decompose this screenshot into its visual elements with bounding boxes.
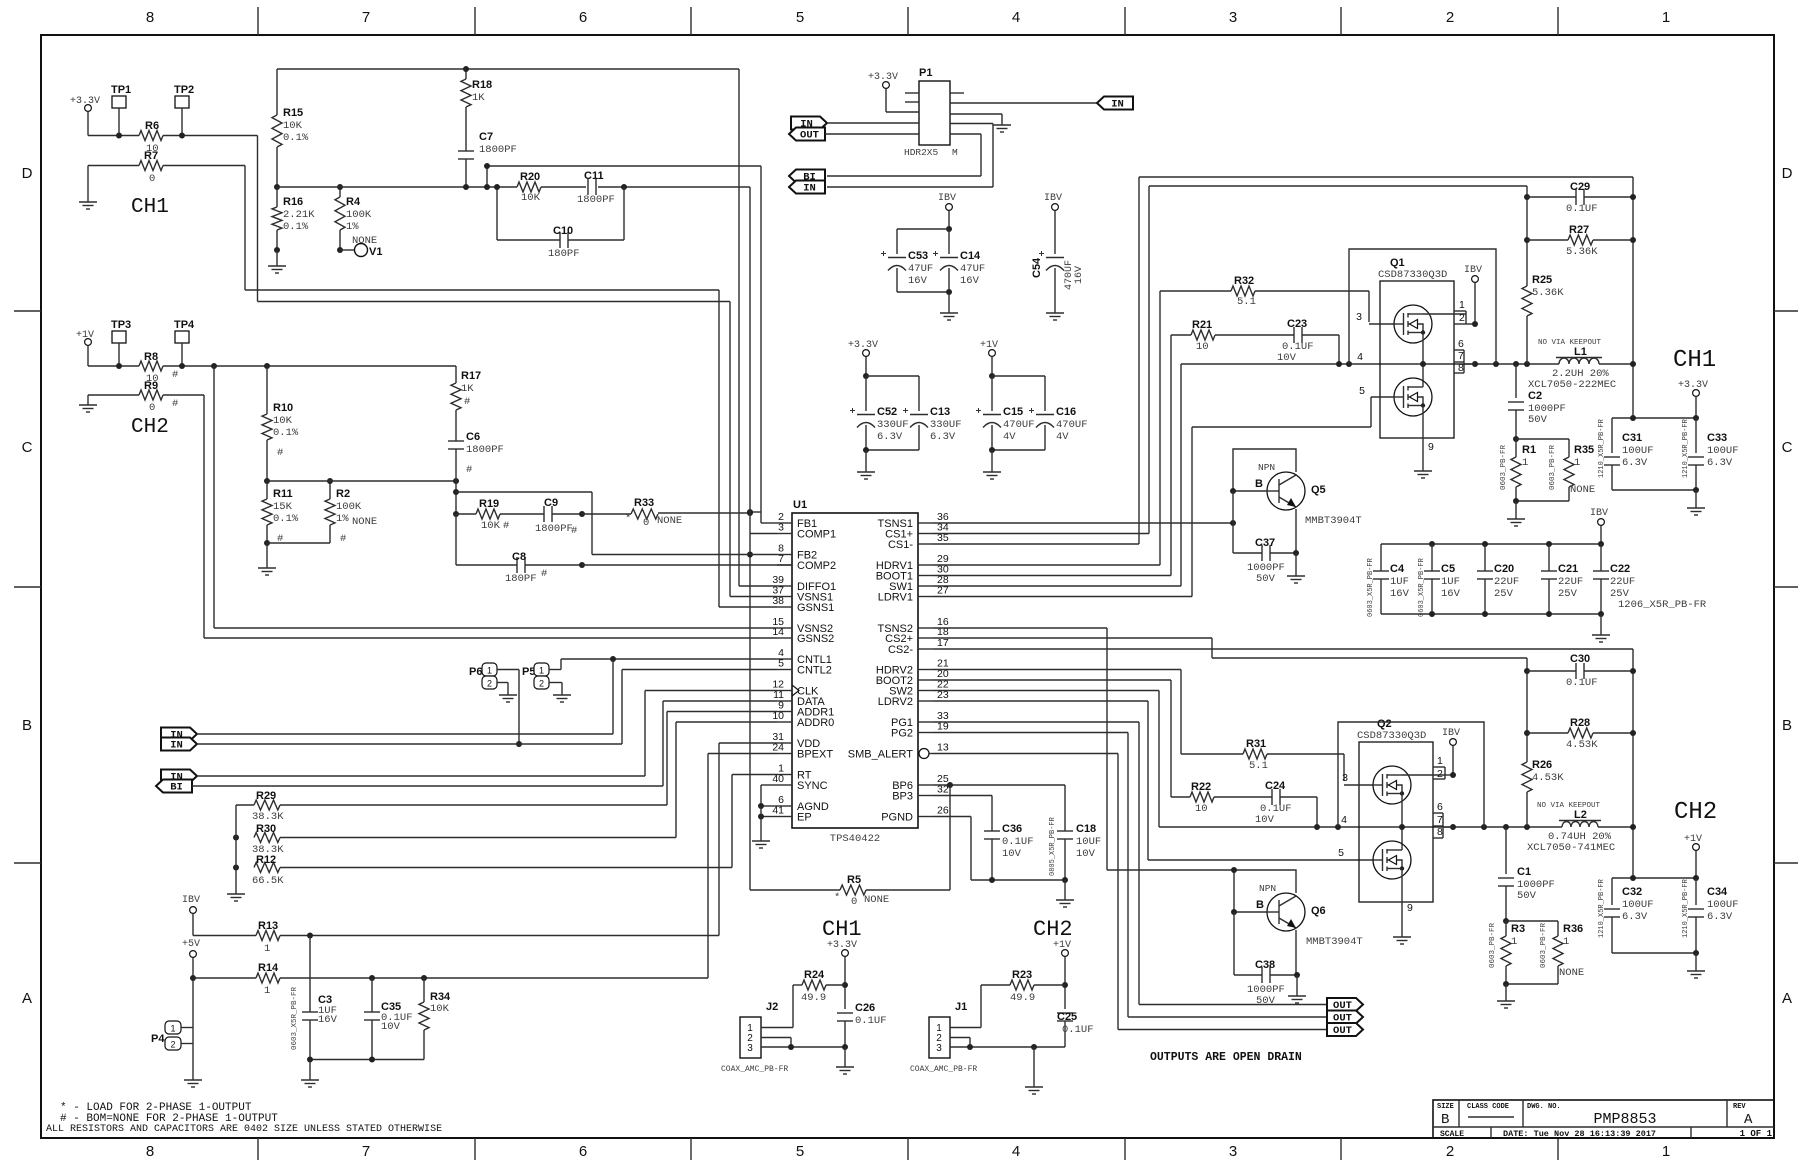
wire C53 bottom rail <box>897 291 949 293</box>
svg-text:1210_X5R_PB-FR: 1210_X5R_PB-FR <box>1598 418 1606 478</box>
svg-text:6.3V: 6.3V <box>877 431 903 443</box>
wire J2 pin1 <box>761 1027 793 1029</box>
svg-text:C32: C32 <box>1622 886 1642 898</box>
svg-text:6.3V: 6.3V <box>1707 457 1733 469</box>
svg-text:6.3V: 6.3V <box>1707 911 1733 923</box>
capacitor C16 <box>1036 414 1054 416</box>
svg-text:R33: R33 <box>634 497 654 509</box>
svg-text:22UF: 22UF <box>1494 576 1519 588</box>
node R26 <box>1524 824 1530 830</box>
svg-text:R8: R8 <box>144 351 158 363</box>
svg-text:C52: C52 <box>877 406 897 418</box>
resistor R3 <box>1505 921 1507 936</box>
voltage probe V1 <box>340 249 355 251</box>
svg-text:4V: 4V <box>1056 431 1069 443</box>
svg-text:B: B <box>22 717 32 734</box>
svg-text:OUT: OUT <box>800 130 819 142</box>
ground (J1) <box>1033 1082 1035 1087</box>
svg-text:C10: C10 <box>553 225 573 237</box>
svg-text:R36: R36 <box>1563 923 1583 935</box>
svg-text:C1: C1 <box>1517 866 1531 878</box>
wire CH2 sense row <box>88 365 139 367</box>
resistor R26 <box>1522 762 1532 792</box>
ground (Q2) <box>1401 932 1403 937</box>
svg-text:R5: R5 <box>847 874 861 886</box>
wire VSNS2 run <box>213 366 215 628</box>
wire CS1- run <box>933 543 1139 545</box>
svg-text:P1: P1 <box>919 67 932 79</box>
node C11 right <box>621 184 627 190</box>
svg-text:5: 5 <box>796 1143 804 1160</box>
wire CH1 sense row <box>88 135 139 137</box>
svg-text:IBV: IBV <box>938 193 956 204</box>
svg-text:17: 17 <box>937 637 949 649</box>
svg-text:*: * <box>834 892 840 904</box>
svg-text:J2: J2 <box>766 1001 778 1013</box>
capacitor C15 <box>991 376 993 411</box>
svg-text:C33: C33 <box>1707 432 1727 444</box>
svg-text:6: 6 <box>1458 338 1464 350</box>
wire CNTL1 row <box>561 658 777 660</box>
svg-text:25V: 25V <box>1494 588 1514 600</box>
node J1 gnd <box>1031 1044 1037 1050</box>
power IBV (Q2) <box>1450 739 1457 746</box>
U1 pin 8 FB2 <box>777 554 792 556</box>
node C38 right <box>1294 972 1300 978</box>
svg-text:8: 8 <box>1437 826 1443 838</box>
svg-text:10V: 10V <box>1255 814 1275 826</box>
svg-text:100UF: 100UF <box>1707 899 1739 911</box>
svg-text:NPN: NPN <box>1258 462 1275 473</box>
wire SMB_ALERT to OUT <box>933 753 1118 755</box>
svg-text:C13: C13 <box>930 406 950 418</box>
svg-text:1: 1 <box>539 666 544 676</box>
wire C3/C35/R34 bottom <box>310 1059 424 1061</box>
node R24/C26 <box>842 982 848 988</box>
svg-text:C37: C37 <box>1255 537 1275 549</box>
svg-text:0603_X5R_PB-FR: 0603_X5R_PB-FR <box>291 986 299 1050</box>
node Q5 base <box>1230 488 1236 494</box>
svg-text:NONE: NONE <box>657 515 682 527</box>
U1 pin 6 AGND <box>777 805 792 807</box>
svg-text:CH2: CH2 <box>1033 917 1073 942</box>
svg-text:SIZE: SIZE <box>1437 1103 1454 1111</box>
U1 pin 36 TSNS1 <box>918 522 933 524</box>
net arrow OUT (PG1) <box>1327 998 1363 1011</box>
wire CH1 left col <box>1526 186 1528 286</box>
svg-text:13: 13 <box>937 742 949 754</box>
net arrow OUT (P1 left) <box>789 128 825 141</box>
svg-text:#: # <box>340 533 346 545</box>
svg-text:4: 4 <box>1012 1143 1020 1160</box>
svg-text:R10: R10 <box>273 402 293 414</box>
svg-text:XCL7050-741MEC: XCL7050-741MEC <box>1527 842 1615 854</box>
svg-text:C8: C8 <box>512 551 526 563</box>
capacitor C4 <box>1380 544 1382 571</box>
svg-text:C54: C54 <box>1031 257 1043 278</box>
svg-text:10K: 10K <box>521 192 541 204</box>
resistor R6 <box>139 131 163 141</box>
svg-text:10V: 10V <box>381 1021 401 1033</box>
net arrow IN (CNTL1) <box>161 728 197 741</box>
wire VDD row <box>719 742 777 744</box>
svg-text:R18: R18 <box>472 79 492 91</box>
capacitor C29 <box>1527 196 1576 198</box>
capacitor C23 <box>1215 334 1294 336</box>
svg-text:COMP1: COMP1 <box>797 529 836 541</box>
svg-text:1: 1 <box>1437 755 1443 767</box>
wire C32/C34 bottom rail <box>1612 952 1696 954</box>
wire CS2- run <box>933 648 1633 650</box>
capacitor C7 <box>465 107 467 151</box>
resistor R23 <box>981 984 1010 986</box>
node tap bottom <box>484 184 490 190</box>
capacitor C22 <box>1600 544 1602 571</box>
power +1V (J1) <box>1062 950 1069 957</box>
capacitor C36 <box>984 830 1000 832</box>
svg-text:M: M <box>952 147 958 158</box>
svg-text:1: 1 <box>1662 9 1670 26</box>
ground (P5) <box>561 690 563 695</box>
capacitor C20 <box>1484 544 1486 571</box>
node C9 right <box>579 511 585 517</box>
U1 pin 33 PG1 <box>918 721 933 723</box>
resistor R29 <box>236 804 254 806</box>
Q1 pins 6/7/8 bracket <box>1454 349 1464 351</box>
svg-text:BPEXT: BPEXT <box>797 749 833 761</box>
wire TSNS1 to Q5 <box>933 522 1233 524</box>
svg-text:U1: U1 <box>793 499 807 511</box>
svg-text:0: 0 <box>149 402 155 414</box>
svg-text:8: 8 <box>146 9 154 26</box>
wire P1 to BI <box>950 133 981 135</box>
op-amp U1 TPS40422 body <box>792 513 918 828</box>
node R6 right <box>179 133 185 139</box>
svg-text:2: 2 <box>170 1040 175 1050</box>
svg-text:R31: R31 <box>1246 738 1266 750</box>
svg-text:1210_X5R_PB-FR: 1210_X5R_PB-FR <box>1682 878 1690 938</box>
U1 pin 3 COMP1 <box>777 533 792 535</box>
svg-text:5: 5 <box>1359 385 1365 397</box>
svg-text:P6: P6 <box>469 666 482 678</box>
wire Q1 pin9 source <box>1422 406 1424 467</box>
svg-text:5.1: 5.1 <box>1237 296 1256 308</box>
node C5 bot <box>1429 611 1435 617</box>
node P6/IN <box>516 741 522 747</box>
ground (C3) <box>309 1075 311 1080</box>
node loop2 right <box>1481 824 1487 830</box>
capacitor C33 <box>1695 418 1697 453</box>
capacitor C24 <box>1214 796 1272 798</box>
svg-text:+1V: +1V <box>1684 834 1702 845</box>
ground (R16) <box>276 250 278 261</box>
net arrow BI (P1) <box>789 170 825 183</box>
svg-text:0603_PB-FR: 0603_PB-FR <box>1549 444 1557 490</box>
svg-text:0.1%: 0.1% <box>283 132 309 144</box>
svg-text:C15: C15 <box>1003 406 1023 418</box>
wire Q6 base <box>1234 911 1267 913</box>
wire BP6 row <box>933 784 1065 786</box>
svg-text:66.5K: 66.5K <box>252 875 284 887</box>
svg-text:TP4: TP4 <box>174 319 195 331</box>
capacitor C31 <box>1611 418 1613 453</box>
svg-text:38.3K: 38.3K <box>252 811 284 823</box>
node C15 rail <box>989 373 995 379</box>
svg-text:R2: R2 <box>336 488 350 500</box>
wire BP3 row <box>933 795 992 797</box>
capacitor C35 <box>371 978 373 1012</box>
wire Q5 left col <box>1232 491 1234 553</box>
node R28 left <box>1524 730 1530 736</box>
net arrow IN (P1 low) <box>789 181 825 194</box>
node R11 bottom <box>264 540 270 546</box>
node R1 bottom <box>1513 498 1519 504</box>
wire P1 OUT <box>825 133 919 135</box>
capacitor C5 <box>1431 544 1433 571</box>
capacitor C52 <box>865 376 867 411</box>
svg-text:100K: 100K <box>336 501 362 513</box>
svg-text:1: 1 <box>1459 299 1465 311</box>
U1 pin 23 LDRV2 <box>918 700 933 702</box>
U1 pin 35 CS1- <box>918 543 933 545</box>
svg-text:7: 7 <box>1458 350 1464 362</box>
U1 pin 38 GSNS1 <box>777 606 792 608</box>
svg-text:0603_PB-FR: 0603_PB-FR <box>1489 922 1497 968</box>
svg-text:GSNS1: GSNS1 <box>797 602 834 614</box>
svg-text:DWG. NO.: DWG. NO. <box>1527 1103 1561 1111</box>
wire HDRV1 run <box>933 564 1160 566</box>
svg-text:1: 1 <box>1563 936 1569 948</box>
ground (R9) <box>87 400 89 405</box>
svg-text:#: # <box>277 447 283 459</box>
svg-text:3: 3 <box>747 1043 753 1054</box>
svg-text:5.36K: 5.36K <box>1532 287 1564 299</box>
power +1V (CH2 out) <box>1693 844 1700 851</box>
wire P6 pin1 <box>497 669 519 671</box>
wire SW1 node row <box>1181 363 1559 365</box>
wire Q2 outer loop <box>1338 722 1484 827</box>
Q1 low-side FET <box>1394 378 1432 416</box>
connector P1 HDR2X5 <box>919 81 950 145</box>
resistor R2 <box>329 481 331 499</box>
U1 pin 31 VDD <box>777 742 792 744</box>
svg-text:C26: C26 <box>855 1002 875 1014</box>
wire BOOT1 run <box>933 575 1171 577</box>
U1 pin 1 RT <box>777 774 792 776</box>
net arrow IN (CLK) <box>161 770 197 783</box>
svg-text:180PF: 180PF <box>548 248 580 260</box>
svg-text:1: 1 <box>1574 457 1580 469</box>
wire J2 pin1 riser <box>792 985 794 1028</box>
svg-text:TP1: TP1 <box>111 84 131 96</box>
node C22 top <box>1598 541 1604 547</box>
svg-text:SMB_ALERT: SMB_ALERT <box>848 749 913 761</box>
node R33 out <box>747 510 753 516</box>
resistor R11 <box>262 499 272 525</box>
wire P1 IN <box>827 122 919 124</box>
resistor R27 <box>1527 239 1568 241</box>
svg-text:LDRV2: LDRV2 <box>878 696 913 708</box>
U1 pin 30 BOOT1 <box>918 575 933 577</box>
svg-text:180PF: 180PF <box>505 573 537 585</box>
node C15 bottom <box>989 447 995 453</box>
svg-text:0.1UF: 0.1UF <box>855 1015 887 1027</box>
svg-text:C2: C2 <box>1528 390 1542 402</box>
svg-text:A: A <box>1782 990 1792 1007</box>
P1 left stub pins <box>905 92 919 94</box>
svg-text:R13: R13 <box>258 920 278 932</box>
node CNTL1/IN <box>610 656 616 662</box>
svg-text:16V: 16V <box>960 275 980 287</box>
node Q2 SW <box>1399 824 1405 830</box>
svg-text:0.1%: 0.1% <box>273 513 299 525</box>
svg-text:IBV: IBV <box>1044 193 1062 204</box>
svg-text:L1: L1 <box>1574 346 1587 358</box>
svg-text:R32: R32 <box>1234 275 1254 287</box>
wire P6 pin2 to gnd <box>497 682 508 684</box>
svg-text:10UF: 10UF <box>1076 836 1101 848</box>
capacitor C21 <box>1548 544 1550 571</box>
svg-text:1: 1 <box>1511 936 1517 948</box>
svg-text:330UF: 330UF <box>877 419 909 431</box>
svg-text:0: 0 <box>149 173 155 185</box>
svg-text:1K: 1K <box>472 92 485 104</box>
svg-text:1%: 1% <box>346 221 359 233</box>
svg-text:R9: R9 <box>144 380 158 392</box>
node FB2 strap <box>747 552 753 558</box>
svg-text:4V: 4V <box>1003 431 1016 443</box>
net arrow IN (CNTL2) <box>161 738 197 751</box>
node R13/C3 <box>307 933 313 939</box>
wire P5 pin1 <box>549 669 561 671</box>
power IBV (cap bank) <box>1598 519 1605 526</box>
node Q1 SW <box>1420 361 1426 367</box>
svg-text:5: 5 <box>778 658 784 670</box>
node bracket <box>1472 361 1478 367</box>
svg-text:7: 7 <box>362 9 370 26</box>
svg-text:Q1: Q1 <box>1390 257 1405 269</box>
svg-text:C6: C6 <box>466 431 480 443</box>
U1 pin 27 LDRV1 <box>918 596 933 598</box>
svg-text:R16: R16 <box>283 196 303 208</box>
U1 pin 2 FB1 <box>777 522 792 524</box>
U1 pin 18 CS2+ <box>918 637 933 639</box>
power +1V (CH2 sense) <box>85 339 92 346</box>
node loop left <box>1346 361 1352 367</box>
wire HDRV2 run <box>933 669 1181 671</box>
svg-text:CS2-: CS2- <box>888 644 913 656</box>
svg-text:C36: C36 <box>1002 823 1022 835</box>
node C29 right <box>1630 194 1636 200</box>
svg-text:1800PF: 1800PF <box>535 523 573 535</box>
ground (R3) <box>1505 996 1507 1001</box>
wire GSNS2 row <box>204 637 777 639</box>
svg-text:100K: 100K <box>346 209 372 221</box>
wire C31/C33 bottom rail <box>1612 489 1696 491</box>
ground (Q1) <box>1422 466 1424 471</box>
node R27 right <box>1630 237 1636 243</box>
node R14/R34 <box>421 975 427 981</box>
svg-text:0603_X5R_PB-FR: 0603_X5R_PB-FR <box>1367 557 1375 617</box>
svg-text:R15: R15 <box>283 107 303 119</box>
svg-text:*: * <box>625 513 631 525</box>
resistor R31 <box>1181 753 1243 755</box>
svg-text:2: 2 <box>1437 768 1443 780</box>
svg-text:A: A <box>1744 1112 1753 1128</box>
wire R11/R2 bottom row <box>267 542 330 544</box>
node R12 left <box>233 865 239 871</box>
node C37 right <box>1293 550 1299 556</box>
U1 pin 32 BP3 <box>918 795 933 797</box>
wire ADDR1 row <box>667 711 777 713</box>
node R25 <box>1524 361 1530 367</box>
wire CS1+ run <box>933 533 1149 535</box>
svg-text:1800PF: 1800PF <box>479 144 517 156</box>
wire J1 pin3 <box>950 1046 1065 1048</box>
power IBV (C53) <box>946 204 953 211</box>
svg-text:25V: 25V <box>1558 588 1578 600</box>
power +3.3V (CH1 out) <box>1693 390 1700 397</box>
svg-text:10K: 10K <box>430 1003 450 1015</box>
capacitor C11 <box>587 179 589 195</box>
svg-text:MMBT3904T: MMBT3904T <box>1305 515 1362 527</box>
wire VSNS1 row <box>730 596 777 598</box>
power IBV (R13) <box>190 907 197 914</box>
wire GSNS2 run <box>203 395 205 638</box>
svg-text:50V: 50V <box>1517 890 1537 902</box>
svg-text:+3.3V: +3.3V <box>827 940 857 951</box>
node C53 rail <box>946 226 952 232</box>
svg-text:4: 4 <box>1012 9 1020 26</box>
Q2 low-side FET <box>1373 841 1411 879</box>
node C23/SW <box>1336 361 1342 367</box>
svg-text:R26: R26 <box>1532 759 1552 771</box>
wire COMP1 row <box>750 533 777 535</box>
svg-text:4.53K: 4.53K <box>1566 739 1598 751</box>
node Q6/TSNS2 <box>1231 867 1237 873</box>
svg-text:TPS40422: TPS40422 <box>830 833 880 845</box>
svg-text:470UF: 470UF <box>1003 419 1035 431</box>
svg-text:0.1UF: 0.1UF <box>1002 836 1034 848</box>
svg-text:R3: R3 <box>1511 923 1525 935</box>
capacitor C34 <box>1695 878 1697 905</box>
net arrow OUT (PG2) <box>1327 1011 1363 1024</box>
svg-text:C25: C25 <box>1057 1011 1077 1023</box>
capacitor C25 <box>1057 1012 1073 1014</box>
node C1 <box>1503 824 1509 830</box>
svg-text:+3.3V: +3.3V <box>868 72 898 83</box>
svg-text:100UF: 100UF <box>1622 445 1654 457</box>
wire LDRV2 run <box>933 700 1148 702</box>
node R2 top <box>327 478 333 484</box>
svg-text:NPN: NPN <box>1259 883 1276 894</box>
svg-text:IBV: IBV <box>182 895 200 906</box>
svg-text:49.9: 49.9 <box>801 992 826 1004</box>
wire ADDR0 row <box>676 721 777 723</box>
transistor Q1 CSD87330Q3D <box>1380 281 1454 438</box>
capacitor C13 <box>910 414 928 416</box>
resistor R8 <box>139 361 163 371</box>
U1 pin 11 DATA <box>777 700 792 702</box>
svg-text:COAX_AMC_PB-FR: COAX_AMC_PB-FR <box>910 1065 977 1074</box>
svg-text:CSD87330Q3D: CSD87330Q3D <box>1378 269 1447 281</box>
node C21 bot <box>1546 611 1552 617</box>
svg-text:SCALE: SCALE <box>1440 1130 1464 1139</box>
svg-text:47UF: 47UF <box>908 263 933 275</box>
resistor R1 <box>1515 439 1517 457</box>
node C2 bottom <box>1513 436 1519 442</box>
net arrow BI (DATA) <box>156 780 192 793</box>
